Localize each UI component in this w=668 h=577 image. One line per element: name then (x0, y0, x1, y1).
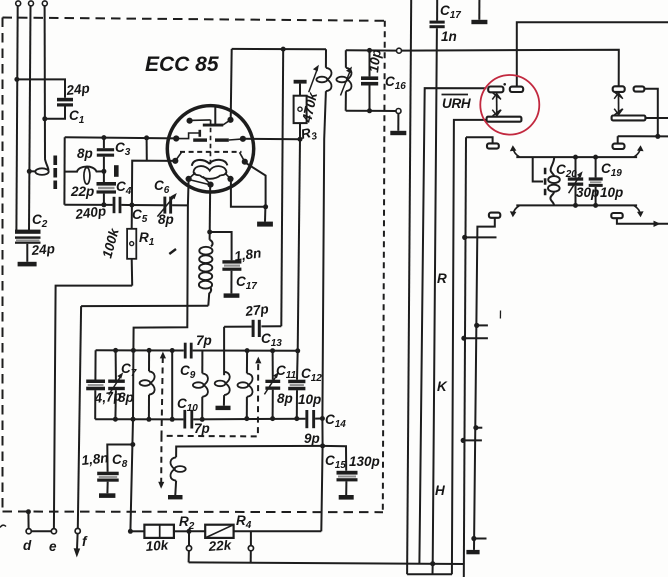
svg-text:C17: C17 (440, 3, 461, 21)
arrow below f (74, 534, 81, 558)
wire link-coil line to C15 node (176, 446, 323, 457)
ground below C16 terminal (390, 131, 406, 135)
label URH with overline (442, 95, 471, 112)
tube V1 heater left pin link (189, 173, 195, 179)
resistor R1 (127, 205, 136, 286)
svg-text:8p: 8p (158, 212, 174, 227)
svg-text:C6: C6 (154, 178, 170, 196)
wire C2 to ground (26, 244, 28, 262)
capacitor C9 (184, 343, 193, 359)
wire anode2 to R3 bottom (243, 138, 300, 140)
switch S2 pad right (634, 86, 645, 91)
wire bus A (407, 0, 411, 574)
wire antenna 3 down (44, 6, 46, 159)
svg-text:7p: 7p (194, 421, 210, 436)
svg-text:8p: 8p (277, 391, 293, 406)
wire bus E top hook (466, 137, 493, 143)
tube V1 internal shield (dashed) (209, 120, 211, 167)
node junction choke / C17b (207, 230, 212, 235)
contact pad E-top (487, 143, 499, 148)
node junction a1 (14, 77, 19, 82)
ground below L6 (216, 406, 231, 410)
node junction bottom rail at C4 (101, 202, 106, 207)
wire choke bottom to f-line (81, 305, 208, 307)
arrow of L1 (309, 65, 319, 92)
node junction C15 (320, 443, 325, 448)
wiper arrow bottom-left (510, 206, 520, 218)
wire bus F from pad (474, 218, 495, 550)
tank top rail (516, 156, 637, 158)
wire C16 box bottom (346, 110, 396, 112)
wire anode1 riser to top bus (231, 49, 232, 120)
wire antenna 1 down (16, 6, 17, 230)
node junction top rail at grid riser (144, 135, 149, 140)
contact tick F3 (471, 536, 486, 541)
terminal circle C16 top (397, 48, 402, 53)
svg-text:C8: C8 (112, 452, 128, 470)
tube V1 heater arcs (194, 166, 227, 179)
capacitor C12 (288, 351, 305, 419)
contact pad bottom right (611, 213, 622, 218)
tube V1 heater centre pin link (203, 176, 210, 184)
wire C13 branch (261, 325, 281, 327)
resistor R3 (294, 84, 307, 140)
svg-text:C17: C17 (236, 274, 257, 292)
svg-text:URH: URH (442, 96, 471, 111)
antenna terminal 2 (29, 1, 34, 6)
svg-text:e: e (49, 539, 57, 554)
svg-text:R3: R3 (300, 124, 319, 145)
svg-text:d: d (23, 538, 32, 553)
node junction d on shield (26, 509, 31, 514)
capacitor C6 (157, 193, 188, 217)
core tick of L3 (169, 249, 176, 254)
node junctions tank bottom (573, 203, 598, 208)
node junctions top rail (113, 348, 300, 353)
switch S1 wiper bar (487, 117, 522, 122)
tank coil L9 (548, 157, 560, 205)
ground below C17b (224, 293, 240, 297)
wire bottom right with arrow (617, 218, 668, 227)
ground top right (471, 20, 487, 24)
wire bus D (wiper line) (452, 120, 487, 574)
wire heater pin down to choke node (209, 185, 212, 232)
svg-text:7p: 7p (196, 333, 212, 348)
wiper arrow top-left (510, 145, 520, 157)
wire ground node stem (264, 207, 266, 222)
svg-text:C7: C7 (121, 361, 137, 379)
capacitor C20 variable (568, 157, 583, 205)
svg-text:24p: 24p (30, 241, 55, 258)
node junction C16 top (367, 48, 372, 53)
svg-text:8p: 8p (77, 146, 93, 161)
wire d-e link (31, 530, 51, 532)
terminal d (26, 529, 31, 534)
svg-text:10p: 10p (366, 48, 384, 73)
capacitor C3 (97, 138, 114, 172)
svg-text:C19: C19 (601, 161, 622, 179)
contact tick F2 (473, 425, 482, 430)
contact tick E3 (461, 438, 482, 443)
oscillator coil L5 (193, 351, 208, 420)
tank bottom rail (516, 204, 637, 206)
contact tick F1 (474, 323, 488, 328)
wire tank left branch (533, 157, 543, 181)
wire C8 branch (107, 445, 133, 472)
node junction top rail at C3 (101, 135, 106, 140)
wire L1 bottom long feedback line (321, 139, 324, 531)
svg-text:C15: C15 (325, 453, 346, 471)
svg-text:C16: C16 (385, 74, 406, 92)
choke coil L3 (199, 232, 213, 306)
capacitor C7 trimmer 8p (108, 350, 125, 419)
svg-text:C13: C13 (261, 331, 282, 349)
coil core slug (114, 165, 119, 177)
oscillator box top rail (96, 349, 298, 352)
node junction right edge (655, 134, 660, 139)
wire bus C (through C17) (433, 28, 437, 574)
variable inductor L2 (C16 tank) (336, 50, 351, 110)
wire C1 bottom lead (45, 107, 65, 119)
svg-text:C10: C10 (177, 396, 198, 414)
transformer T1 secondary box left edge (63, 137, 65, 205)
capacitor C17 (1.8n bypass) (222, 260, 241, 293)
ground below cathode node (257, 222, 273, 227)
svg-text:ECC 85: ECC 85 (145, 53, 219, 76)
svg-text:f: f (82, 534, 88, 549)
wire C16 box top (346, 49, 397, 51)
terminal e (51, 529, 56, 534)
wiper arrow bottom-right (634, 206, 644, 218)
wire link winding column (171, 351, 173, 420)
wire choke node to C17b (210, 232, 232, 260)
wire f-line down to terminal f (78, 306, 81, 528)
switch S2 wiper bar (612, 116, 646, 121)
variable inductor L1 (FM osc) (316, 49, 331, 139)
contact tick E2 (461, 336, 488, 341)
node junction secondary-C3C4 (101, 169, 106, 174)
capacitor C14 (305, 410, 315, 428)
svg-text:C3: C3 (115, 140, 131, 158)
antenna terminal 1 (16, 1, 21, 6)
svg-text:C14: C14 (325, 412, 346, 430)
wire top ground stem (478, 0, 480, 20)
transformer T1 secondary coil (65, 167, 104, 185)
wire R1 return to terminal e (54, 286, 132, 529)
link coil L8 (170, 457, 185, 495)
wire antenna 2 down (29, 6, 31, 230)
svg-text:C9: C9 (180, 363, 196, 381)
svg-text:240p: 240p (74, 203, 107, 222)
red annotation circle (480, 75, 539, 135)
tube V1 grid left pin link (176, 152, 182, 160)
wire heater pin link at ground node (231, 180, 266, 207)
tank coil core (dashed) (544, 168, 547, 196)
svg-text:1n: 1n (441, 29, 457, 44)
wire R3-bottom down to oscillator rail (298, 139, 300, 351)
wire d stem (27, 512, 29, 529)
svg-text:H: H (435, 483, 445, 498)
node junction C16 bottom (367, 108, 372, 113)
ground below C2 (18, 262, 37, 267)
wire R3-top branch down to C13 (281, 49, 283, 326)
node junction R3 bottom (298, 137, 303, 142)
node junction primary-bottom (27, 169, 32, 174)
capacitor C7 fixed 4.7p (86, 380, 105, 391)
wiper arrow top-right (634, 145, 644, 157)
wire cathode line down (C6 node) (133, 180, 188, 351)
tube V1 pin wire top-left (190, 119, 211, 122)
tube V1 anode bar left (193, 138, 207, 141)
contact tick E1 (462, 235, 496, 240)
wire top bus y=49 (232, 48, 326, 50)
capacitor C13 (224, 320, 261, 337)
oscillator coil L7 (238, 351, 253, 419)
capacitor C15 (323, 446, 358, 495)
svg-text:1,8n: 1,8n (81, 450, 109, 468)
wire R2 feed line through box (130, 350, 133, 531)
wire C13 down through rail to coil (223, 327, 225, 375)
squiggle at left edge (0, 525, 6, 527)
capacitor C16 (361, 50, 378, 110)
svg-text:10p: 10p (298, 392, 321, 407)
svg-text:C11: C11 (276, 363, 297, 381)
dashed tuning-gang link (158, 352, 261, 489)
svg-text:100k: 100k (99, 225, 122, 259)
svg-text:27p: 27p (244, 301, 270, 319)
oscillator coil L6 (grounded) (215, 372, 230, 406)
tube V1 pin dots (172, 117, 248, 188)
node junction C8 tap (130, 442, 135, 447)
tube V1 anode 1 (top) (203, 106, 231, 126)
switch S2 pad top (613, 86, 625, 92)
transformer T1 core (53, 156, 57, 190)
svg-text:R4: R4 (236, 513, 252, 531)
ground below C15 (339, 495, 354, 500)
svg-text:1,8n: 1,8n (233, 245, 262, 264)
svg-text:22p: 22p (70, 184, 94, 199)
wire C1 top lead (17, 79, 65, 97)
svg-text:8p: 8p (118, 390, 134, 405)
svg-text:C4: C4 (116, 179, 132, 197)
tube V1 heater right pin link (225, 173, 230, 179)
contact pad F-top (489, 213, 500, 218)
capacitor C19 (589, 157, 603, 205)
small dot inside red circle (503, 83, 506, 86)
node junctions bottom rail (113, 416, 325, 422)
transformer T1 primary coil (29, 159, 48, 175)
ground bottom of bus F (466, 550, 479, 554)
capacitor plate above R3 (294, 80, 307, 84)
node junction top bus / R3 branch (281, 47, 286, 52)
capacitor C17 (1n, top) (430, 0, 445, 28)
svg-text:C5: C5 (132, 207, 148, 225)
capacitor C4 (97, 171, 117, 205)
wire bus E (464, 137, 466, 577)
capacitor C2 (15, 230, 41, 244)
wire grid riser and grid line (132, 161, 175, 205)
terminal f (75, 528, 80, 533)
svg-text:24p: 24p (65, 81, 91, 98)
capacitor C11 trimmer (264, 351, 280, 419)
wire top bus to right switch (upper) (517, 22, 668, 87)
svg-text:R2: R2 (179, 514, 195, 532)
node junction R2 left (128, 529, 133, 534)
wire output line to switch bottom (189, 562, 464, 564)
resistor R4 (189, 525, 321, 538)
wire C16 lower terminal to ground (397, 114, 399, 131)
shield dashed box (3, 18, 386, 513)
switch S1 double arrow (492, 93, 501, 116)
tube V1 anode bar right (215, 138, 229, 141)
tube V1 grid2 bar (199, 130, 202, 137)
capacitor C5 (113, 197, 164, 213)
capacitor C8 (97, 472, 119, 494)
wire S2 right pad to node (644, 89, 657, 137)
wire top-rail to grid riser (146, 138, 148, 161)
tube V1 cathode2 diagonal to ground node (246, 163, 266, 207)
capacitor C10 (183, 410, 193, 429)
node junction cathode ground (263, 204, 268, 209)
plug circle below R4 wire (248, 531, 253, 562)
svg-text:10p: 10p (600, 185, 623, 200)
speck mark (499, 311, 501, 319)
node junctions tank top (573, 155, 598, 160)
arrow of L2 (341, 67, 353, 96)
tube V1 pin-to-pin diagonal (191, 180, 209, 184)
wire S2 wiper to right edge (645, 117, 668, 119)
tube V1 grid2 hook (176, 133, 199, 139)
node junction C1-return (42, 116, 47, 121)
plug circle below R2 junction (186, 531, 191, 562)
capacitor C1 (57, 98, 73, 107)
oscillator box bottom rail (95, 418, 322, 421)
ground below C8 (99, 493, 115, 498)
tube V1 envelope (167, 106, 253, 192)
contact pad S2 lower (613, 144, 625, 149)
svg-text:R: R (437, 271, 447, 286)
wire bus B (URH) (419, 88, 486, 563)
tube V1 grid row (dashed) (180, 151, 242, 153)
svg-text:9p: 9p (304, 431, 320, 446)
node junction R2-R4 (187, 529, 192, 534)
antenna terminal 3 (42, 1, 47, 6)
tube V1 anode-right pin wire (229, 139, 243, 140)
wire node corner to pad (617, 136, 619, 143)
switch S1 pad right (510, 87, 523, 92)
svg-text:C2: C2 (32, 212, 48, 230)
svg-text:K: K (437, 379, 448, 394)
bottom cap wire (407, 573, 452, 575)
ground below L8 (168, 495, 183, 499)
svg-text:130p: 130p (349, 454, 380, 469)
terminal circle C16 bottom (396, 109, 401, 114)
oscillator coil L4 (140, 350, 155, 419)
wire tuned circuit top rail (65, 137, 176, 138)
node junction C5-grid riser (129, 203, 134, 208)
tube V1 grid right pin link (240, 152, 245, 161)
svg-text:22k: 22k (207, 537, 233, 554)
tube V1 cathode arcs (192, 160, 228, 166)
wire AM line from C16 terminal (402, 50, 619, 87)
switch S2 double arrow (614, 92, 623, 115)
switch S1 pad left (488, 87, 503, 93)
resistor R2 (130, 525, 189, 538)
oscillator box left edge (94, 350, 96, 419)
svg-text:R1: R1 (139, 230, 155, 248)
svg-text:C1: C1 (69, 108, 85, 126)
wire tuned circuit bottom rail (64, 204, 112, 206)
svg-text:10k: 10k (145, 537, 170, 554)
wire node to right edge (618, 135, 668, 137)
node junction bus C / output line (430, 561, 435, 566)
